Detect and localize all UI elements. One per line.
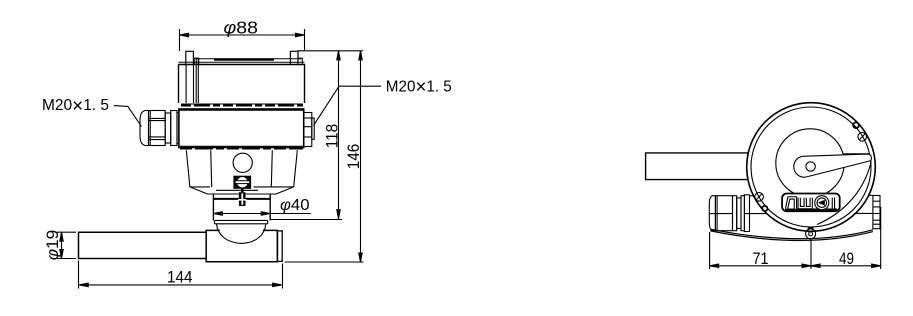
terminal body top edges: [750, 194, 873, 197]
lid left tab step: [194, 58, 199, 64]
bell dome: [217, 224, 266, 244]
locking screw head: [237, 177, 249, 189]
logo letters: [787, 197, 834, 209]
cable gland left ribbed body: [149, 111, 166, 146]
spring curve: [817, 162, 871, 225]
dimension 144: [79, 261, 283, 289]
leader line right M20x1.5: [314, 86, 381, 125]
lever arm: [794, 154, 872, 177]
lid right corner piece: [298, 58, 302, 64]
probe pipe: [79, 232, 207, 258]
inner rim circle: [751, 107, 871, 227]
lid raised top band: [214, 58, 274, 60]
locking screw slot: [235, 181, 249, 184]
neck bottom flange: [215, 220, 268, 223]
lever hole: [806, 162, 815, 171]
bonnet outline: [186, 150, 297, 190]
cable gland left outer ring: [171, 111, 177, 146]
body box top thick edge: [179, 109, 304, 111]
pipe boss at rim: [747, 153, 748, 180]
dimension phi19: [57, 232, 76, 258]
svg-text:φ88: φ88: [224, 17, 259, 37]
svg-text:φ19: φ19: [43, 230, 62, 261]
face circle: [776, 129, 844, 197]
side gland flange: [744, 195, 749, 232]
cable gland left narrow ring: [165, 113, 171, 143]
logo G center wedge: [818, 200, 825, 206]
svg-text:71: 71: [753, 249, 769, 268]
right gland ribbed: [873, 196, 880, 229]
svg-text:φ40: φ40: [280, 197, 310, 214]
plug below screw: [238, 188, 246, 206]
side gland cap: [709, 196, 715, 231]
neck phi40 section: [213, 194, 270, 220]
svg-text:118: 118: [323, 124, 342, 149]
lid left tab: [186, 51, 194, 64]
dimension phi88 dim line: [180, 29, 305, 51]
dimension 118: [271, 51, 363, 220]
sight glass circle: [233, 153, 252, 172]
tee body: [206, 230, 277, 261]
tee end cap: [277, 231, 282, 262]
leader line left M20x1.5: [114, 106, 142, 127]
cable gland left cap: [140, 111, 149, 146]
rim screw upper slotted: [858, 133, 867, 142]
svg-text:49: 49: [839, 249, 854, 268]
locking screw square: [234, 176, 250, 188]
enclosure body box: [179, 109, 304, 148]
lever tip top line: [843, 153, 870, 155]
lid right tab: [290, 51, 298, 64]
side gland rings: [733, 196, 745, 231]
terminal body bottom: [710, 229, 873, 240]
logo plate: [782, 194, 840, 212]
bonnet chamfer rim: [190, 187, 294, 199]
body box bottom band: [180, 146, 303, 148]
enclosure lid outline: [179, 62, 305, 103]
probe pipe side view: [646, 153, 749, 180]
side gland body: [709, 196, 732, 231]
body seam lines: [744, 212, 873, 214]
svg-text:146: 146: [344, 144, 363, 170]
dimension phi40: [213, 212, 310, 215]
lid thread band: [181, 104, 303, 106]
bottom screw: [806, 228, 816, 239]
rim screw lower slotted: [755, 193, 764, 202]
outer cover circle: [747, 103, 876, 232]
svg-text:144: 144: [167, 267, 193, 286]
lid hinge vertical lines: [186, 59, 198, 103]
rim screw upper small: [853, 122, 859, 128]
svg-text:M20×1. 5: M20×1. 5: [386, 77, 452, 98]
dimension 146: [285, 51, 364, 262]
dimension 71 and 49: [710, 207, 881, 269]
svg-text:M20×1. 5: M20×1. 5: [42, 96, 109, 117]
rim screw lower small: [762, 206, 767, 211]
cable gland left flange: [177, 113, 179, 144]
blanking plug right: [304, 113, 314, 147]
